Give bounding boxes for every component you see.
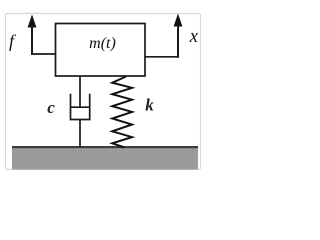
ground top line <box>12 146 198 148</box>
damper lower rod <box>79 120 81 148</box>
wire x connector <box>145 56 179 58</box>
spring k <box>112 77 132 148</box>
displacement arrow x shaft <box>177 25 179 58</box>
svg-text:x: x <box>189 27 199 47</box>
force arrow f shaft <box>31 26 33 55</box>
displacement arrow x head <box>174 14 183 27</box>
mass box m(t) <box>56 24 146 77</box>
force arrow f head <box>28 15 37 28</box>
svg-text:m(t): m(t) <box>89 35 116 52</box>
damper cylinder <box>71 94 90 120</box>
svg-text:k: k <box>145 96 154 115</box>
wire f connector <box>32 53 56 55</box>
svg-text:c: c <box>47 98 55 117</box>
damper upper rod <box>79 76 81 107</box>
damper piston plate <box>71 106 90 108</box>
border frame <box>6 14 201 170</box>
